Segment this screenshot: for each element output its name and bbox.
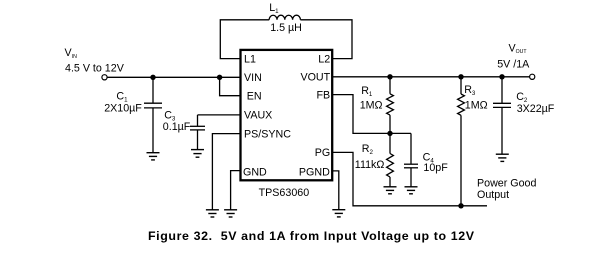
resistor R3 — [458, 77, 465, 206]
svg-text:VIN: VIN — [244, 72, 262, 84]
svg-text:4.5 V to 12V: 4.5 V to 12V — [65, 62, 125, 74]
node C2 top — [499, 74, 504, 79]
svg-text:1.5 µH: 1.5 µH — [270, 22, 302, 34]
node FB/R1/R2 — [387, 131, 392, 136]
wire L1 loop left — [220, 20, 269, 59]
node R1 top — [387, 74, 392, 79]
svg-text:10pF: 10pF — [423, 162, 448, 174]
ground (C1) — [147, 153, 160, 160]
svg-text:0.1µF: 0.1µF — [163, 121, 191, 133]
capacitor C2 — [493, 77, 511, 154]
node R3 top — [458, 74, 463, 79]
ground (PGND) — [332, 210, 345, 217]
svg-text:1MΩ: 1MΩ — [360, 99, 383, 111]
svg-text:VOUT: VOUT — [300, 72, 330, 84]
wire VOUT rail — [333, 76, 530, 78]
svg-text:L1: L1 — [244, 53, 256, 65]
output terminal circle — [530, 74, 535, 79]
wire PGND pin to ground — [332, 171, 339, 210]
node R3/PG — [458, 203, 463, 208]
svg-text:5V /1A: 5V /1A — [497, 58, 530, 70]
capacitor C1 — [144, 77, 162, 152]
svg-text:1MΩ: 1MΩ — [465, 100, 488, 112]
wire FB net — [333, 95, 411, 134]
svg-text:PG: PG — [315, 147, 330, 159]
wire PS/SYNC to ground — [212, 134, 240, 210]
ground (C3) — [191, 150, 204, 158]
ground (C2) — [496, 154, 509, 161]
node EN/VIN — [217, 75, 222, 80]
input terminal circle — [102, 75, 107, 80]
wire PG net — [333, 152, 487, 205]
ground (PS/SYNC) — [206, 210, 219, 217]
svg-text:Figure 32. 5V and 1A from Inp: Figure 32. 5V and 1A from Input Voltage … — [148, 229, 475, 243]
svg-text:L2: L2 — [318, 53, 330, 65]
op-amp U1 box TPS63060 — [241, 50, 333, 180]
svg-text:Output: Output — [477, 189, 509, 201]
svg-text:EN: EN — [247, 91, 262, 103]
wire VAUX to C3 — [198, 114, 241, 116]
resistor R2 — [387, 133, 394, 186]
svg-text:Power Good: Power Good — [477, 178, 536, 190]
svg-text:PGND: PGND — [299, 167, 330, 179]
node C1/VIN — [150, 75, 155, 80]
svg-text:FB: FB — [317, 89, 331, 101]
svg-text:GND: GND — [243, 167, 267, 179]
svg-text:3X22µF: 3X22µF — [517, 103, 555, 115]
wire EN branch — [220, 77, 240, 95]
ground (R2) — [384, 187, 397, 194]
resistor R1 — [387, 77, 394, 134]
inductor L1 — [269, 15, 300, 20]
ground (C4) — [405, 187, 418, 194]
ground (GND) — [224, 210, 237, 217]
capacitor C3 — [190, 115, 205, 150]
svg-text:2X10µF: 2X10µF — [104, 102, 142, 114]
wire VIN rail — [107, 76, 240, 78]
svg-text:VAUX: VAUX — [244, 110, 272, 122]
wire GND pin to ground — [231, 171, 240, 210]
svg-text:TPS63060: TPS63060 — [259, 187, 310, 199]
svg-text:111kΩ: 111kΩ — [355, 159, 385, 171]
wire L2 loop right — [300, 20, 352, 59]
capacitor C4 — [404, 133, 418, 186]
svg-text:PS/SYNC: PS/SYNC — [244, 128, 291, 140]
